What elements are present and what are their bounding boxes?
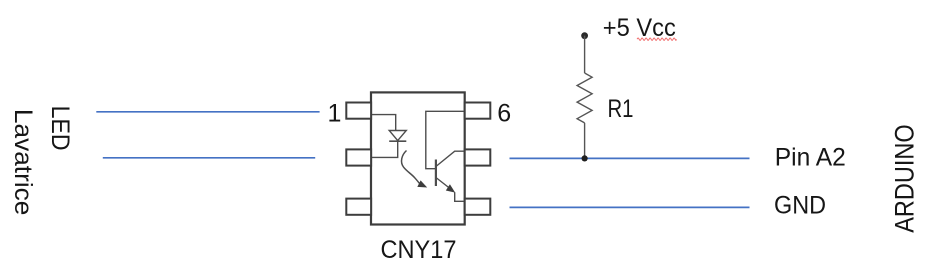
light ray arrow [402, 151, 428, 188]
internal LED diode D [389, 131, 406, 142]
svg-text:ARDUINO: ARDUINO [890, 124, 920, 233]
wire left LED cathode [103, 157, 315, 159]
svg-text:6: 6 [497, 100, 511, 128]
label LED Lavatrice [9, 106, 74, 216]
wire Pin A2 net [510, 157, 750, 159]
svg-text:Pin A2: Pin A2 [775, 143, 846, 171]
wire GND net [510, 206, 750, 208]
svg-text:1: 1 [328, 100, 342, 128]
svg-text:CNY17: CNY17 [381, 236, 457, 264]
svg-text:GND: GND [774, 191, 826, 219]
svg-text:+5 Vcc: +5 Vcc [603, 14, 676, 42]
svg-text:LED: LED [46, 106, 74, 151]
pin 3 [346, 199, 371, 215]
phototransistor Q base bar [435, 160, 437, 187]
pin 5 [465, 149, 491, 165]
phototransistor collector wire [436, 151, 464, 166]
op-to body U1 outline [371, 92, 465, 224]
pin 2 [346, 149, 371, 165]
phototransistor emitter wire with arrow [436, 178, 464, 202]
internal base wire from pin 6 [426, 111, 464, 168]
pin 6 [465, 103, 491, 119]
pin 4 [465, 199, 491, 215]
wire left LED anode [96, 111, 319, 113]
svg-text:Lavatrice: Lavatrice [9, 109, 37, 215]
spellcheck squiggle under Vcc [637, 38, 676, 40]
internal LED wire anode [372, 115, 396, 131]
pin 1 [346, 103, 371, 119]
node +5 Vcc dot [581, 32, 588, 39]
resistor R1 [577, 36, 592, 159]
internal LED wire cathode [372, 141, 398, 157]
junction dot on Pin A2 net [582, 155, 588, 161]
svg-text:R1: R1 [608, 95, 634, 123]
